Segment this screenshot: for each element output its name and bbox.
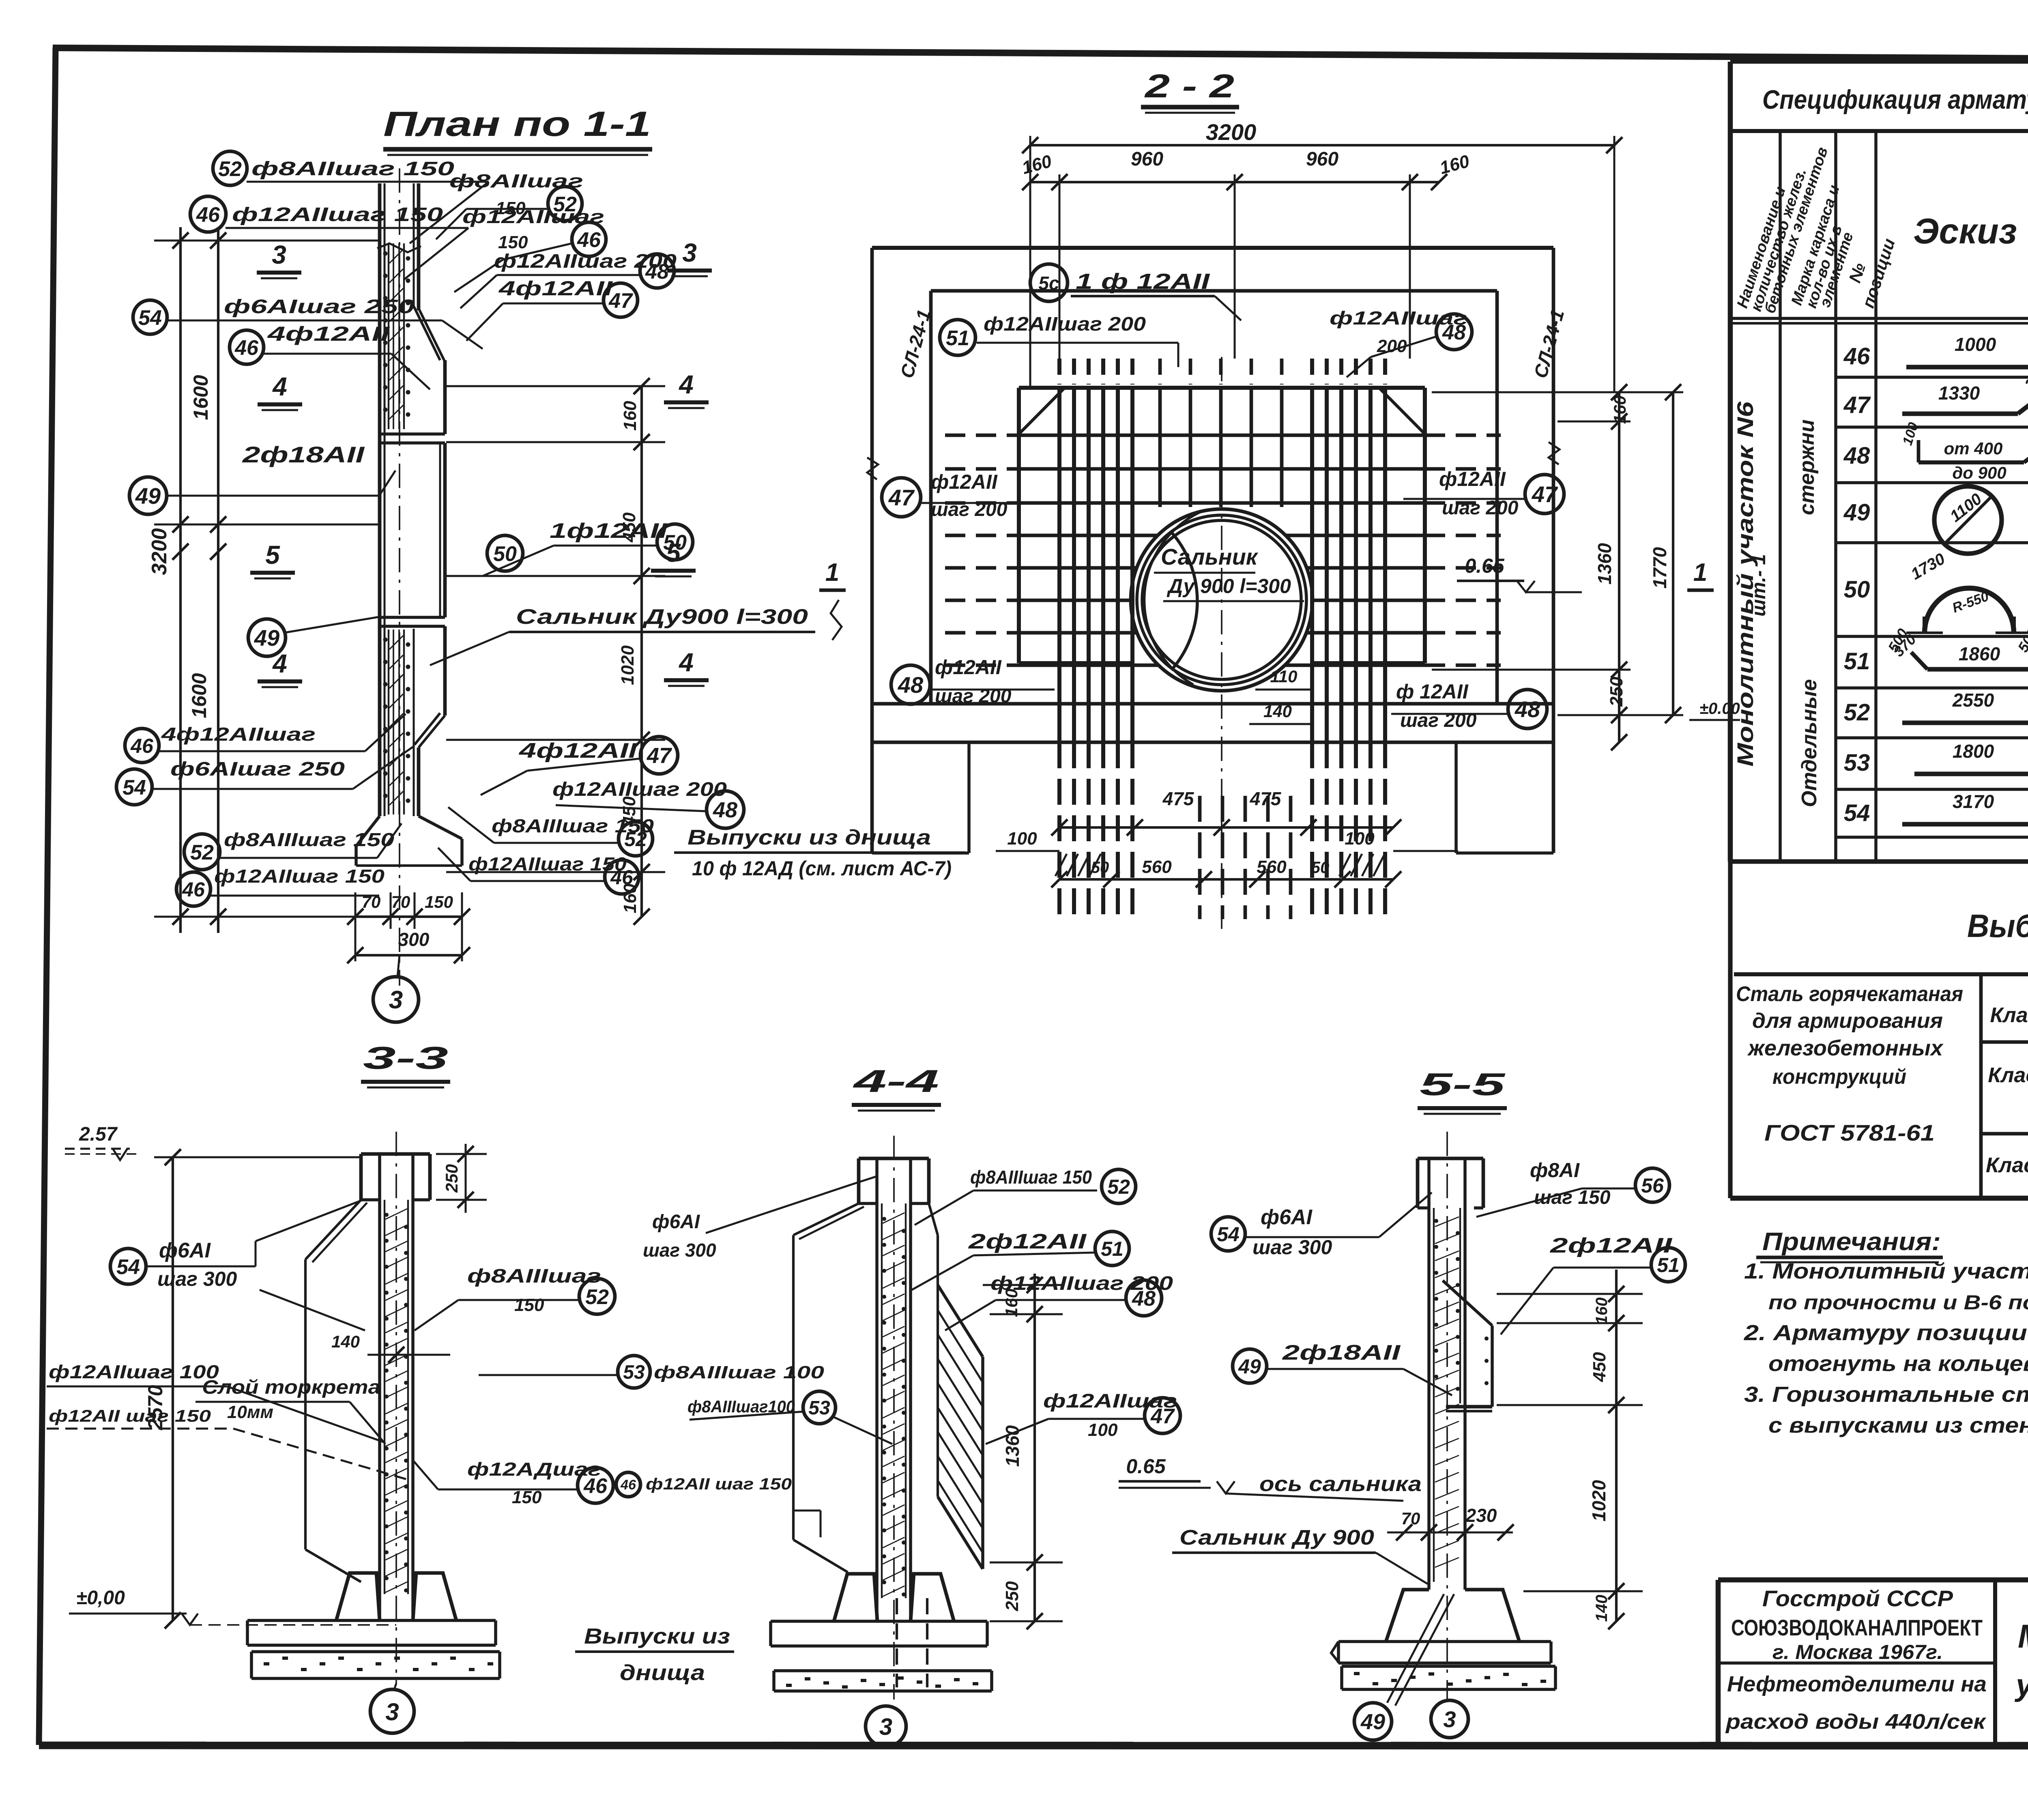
svg-text:3: 3 xyxy=(385,1698,399,1725)
svg-text:4: 4 xyxy=(272,372,287,401)
svg-text:±0,00: ±0,00 xyxy=(76,1587,125,1609)
svg-text:1. Монолитный участок вып: 1. Монолитный участок выполнять из бетон… xyxy=(1744,1259,2028,1283)
svg-text:3200: 3200 xyxy=(148,528,171,575)
svg-text:46: 46 xyxy=(1843,343,1870,370)
svg-text:4ф12АII: 4ф12АII xyxy=(267,322,390,345)
svg-text:46: 46 xyxy=(577,228,601,252)
svg-text:ф8АIIIшаг: ф8АIIIшаг xyxy=(467,1266,601,1287)
svg-text:560: 560 xyxy=(1142,857,1172,877)
svg-text:54: 54 xyxy=(122,776,146,799)
svg-text:70: 70 xyxy=(362,892,381,911)
svg-text:ф12АIIшаг 200: ф12АIIшаг 200 xyxy=(552,779,727,800)
svg-text:2ф18АII: 2ф18АII xyxy=(1282,1341,1401,1364)
svg-text:46: 46 xyxy=(196,203,220,227)
svg-text:3: 3 xyxy=(389,986,403,1014)
svg-text:47: 47 xyxy=(1150,1405,1175,1428)
svg-text:52: 52 xyxy=(218,157,242,181)
svg-text:железобетонных: железобетонных xyxy=(1747,1036,1944,1060)
svg-text:1860: 1860 xyxy=(1959,643,2000,664)
svg-text:ф 12АII: ф 12АII xyxy=(1396,680,1469,703)
svg-text:100: 100 xyxy=(1345,829,1375,849)
svg-text:ф12АIIшаг 150: ф12АIIшаг 150 xyxy=(232,204,443,226)
svg-text:2550: 2550 xyxy=(1952,690,1994,711)
svg-text:ф12АIIшаг: ф12АIIшаг xyxy=(1330,307,1467,329)
svg-text:ф8АIIIшаг 150: ф8АIIIшаг 150 xyxy=(970,1167,1092,1188)
svg-text:Эскиз: Эскиз xyxy=(1913,211,2017,251)
svg-text:46: 46 xyxy=(130,735,154,757)
svg-text:3-3: 3-3 xyxy=(363,1040,448,1076)
svg-text:5с: 5с xyxy=(1038,273,1059,294)
svg-text:110: 110 xyxy=(1270,667,1298,686)
svg-text:конструкций: конструкций xyxy=(1772,1065,1906,1089)
svg-text:Монолитный: Монолитный xyxy=(2018,1618,2028,1655)
svg-text:ф8АIIIшаг 150: ф8АIIIшаг 150 xyxy=(224,829,395,850)
svg-text:1020: 1020 xyxy=(1588,1480,1609,1521)
svg-text:48: 48 xyxy=(1132,1287,1156,1311)
svg-text:г. Москва 1967г.: г. Москва 1967г. xyxy=(1772,1641,1943,1663)
svg-text:4ф12АIIшаг: 4ф12АIIшаг xyxy=(161,724,316,745)
svg-text:КлассАI: КлассАI xyxy=(1990,1003,2028,1027)
svg-text:160: 160 xyxy=(1593,1298,1611,1325)
svg-text:КлассАII: КлассАII xyxy=(1988,1064,2028,1087)
svg-text:160: 160 xyxy=(1020,151,1054,178)
svg-text:4ф12АII: 4ф12АII xyxy=(498,277,613,300)
svg-text:300: 300 xyxy=(398,929,430,950)
svg-text:5-5: 5-5 xyxy=(1420,1066,1506,1102)
svg-text:4ф12АII: 4ф12АII xyxy=(519,739,638,763)
svg-text:52: 52 xyxy=(1844,699,1870,726)
svg-text:52: 52 xyxy=(1107,1175,1130,1198)
svg-text:Нефтеотделители на: Нефтеотделители на xyxy=(1727,1672,1987,1696)
svg-text:51: 51 xyxy=(1657,1254,1680,1276)
svg-text:50: 50 xyxy=(1844,576,1870,603)
svg-text:ф6АI: ф6АI xyxy=(1261,1205,1313,1229)
svg-text:1020: 1020 xyxy=(618,645,638,685)
svg-text:Примечания:: Примечания: xyxy=(1762,1228,1941,1256)
svg-text:51: 51 xyxy=(946,327,969,350)
svg-text:Сальник Ду 900: Сальник Ду 900 xyxy=(1179,1526,1374,1549)
svg-text:2ф18АII: 2ф18АII xyxy=(242,442,365,467)
svg-text:ф12АIIшаг 200: ф12АIIшаг 200 xyxy=(494,251,677,272)
svg-text:ф12АII: ф12АII xyxy=(1439,468,1506,490)
svg-text:ф12АII: ф12АII xyxy=(935,656,1002,679)
svg-text:100: 100 xyxy=(1088,1420,1118,1440)
svg-text:шаг 300: шаг 300 xyxy=(157,1268,237,1290)
svg-text:1800: 1800 xyxy=(1953,741,1994,762)
svg-text:49: 49 xyxy=(1238,1355,1261,1378)
svg-text:от 400: от 400 xyxy=(1944,439,2003,458)
svg-text:140: 140 xyxy=(331,1332,360,1351)
svg-text:50: 50 xyxy=(493,542,517,566)
svg-text:53: 53 xyxy=(808,1397,830,1419)
svg-text:50: 50 xyxy=(1311,859,1330,877)
svg-text:54: 54 xyxy=(1844,800,1870,826)
svg-text:1: 1 xyxy=(825,559,839,587)
svg-text:шаг 300: шаг 300 xyxy=(643,1240,716,1261)
svg-text:Спецификация арматуры на один: Спецификация арматуры на один элемент xyxy=(1762,84,2028,114)
svg-text:450: 450 xyxy=(1590,1352,1609,1382)
svg-text:475: 475 xyxy=(1250,788,1282,809)
svg-text:52: 52 xyxy=(190,841,214,864)
svg-text:51: 51 xyxy=(1844,648,1870,675)
svg-text:160: 160 xyxy=(1437,151,1472,178)
svg-text:54: 54 xyxy=(138,306,162,330)
svg-text:по прочности и В-6 по вод: по прочности и В-6 по водонепроницаемост… xyxy=(1768,1291,2028,1314)
svg-text:1ф12АII: 1ф12АII xyxy=(550,519,668,543)
svg-text:отогнуть на кольцевую армат: отогнуть на кольцевую арматуру поз. 49. xyxy=(1768,1352,2028,1376)
svg-text:1360: 1360 xyxy=(1594,543,1615,584)
svg-text:140: 140 xyxy=(1263,702,1292,721)
svg-text:10мм: 10мм xyxy=(227,1402,273,1422)
svg-text:48: 48 xyxy=(1843,443,1870,469)
svg-text:1 ф 12АII: 1 ф 12АII xyxy=(1076,269,1210,294)
svg-text:ГОСТ 5781-61: ГОСТ 5781-61 xyxy=(1764,1120,1935,1145)
svg-text:46: 46 xyxy=(182,878,205,901)
svg-text:48: 48 xyxy=(898,672,924,698)
svg-text:ф8АIIшаг 150: ф8АIIшаг 150 xyxy=(251,158,454,180)
svg-text:днища: днища xyxy=(620,1661,705,1685)
svg-text:стержни: стержни xyxy=(1795,419,1819,515)
svg-text:49: 49 xyxy=(1843,499,1870,526)
svg-text:Сталь горячекатаная: Сталь горячекатаная xyxy=(1736,982,1963,1006)
svg-text:ф8АIIIшаг 100: ф8АIIIшаг 100 xyxy=(654,1362,825,1382)
svg-text:4: 4 xyxy=(678,370,694,399)
svg-text:ф12АIIшаг 150: ф12АIIшаг 150 xyxy=(468,853,627,875)
svg-text:46: 46 xyxy=(583,1474,608,1498)
svg-text:47: 47 xyxy=(647,743,672,768)
svg-text:160: 160 xyxy=(1610,395,1629,424)
svg-text:2 - 2: 2 - 2 xyxy=(1144,68,1234,105)
svg-text:54: 54 xyxy=(116,1255,140,1279)
svg-text:160: 160 xyxy=(620,401,640,431)
svg-text:1730: 1730 xyxy=(1908,550,1948,583)
svg-text:48: 48 xyxy=(1515,696,1540,722)
svg-text:3. Горизонтальные стержни: 3. Горизонтальные стержни поз. №54 перев… xyxy=(1744,1382,2028,1407)
svg-text:Выпуски из: Выпуски из xyxy=(584,1624,730,1648)
svg-text:ф8АI: ф8АI xyxy=(1530,1159,1580,1182)
svg-text:5: 5 xyxy=(265,540,280,569)
svg-text:2.57: 2.57 xyxy=(79,1124,118,1145)
svg-text:250: 250 xyxy=(1607,677,1626,707)
svg-text:ф8АIIIшаг 150: ф8АIIIшаг 150 xyxy=(492,815,654,836)
svg-text:1770: 1770 xyxy=(1649,547,1670,589)
svg-text:56: 56 xyxy=(1641,1174,1664,1197)
svg-text:3170: 3170 xyxy=(1953,791,1994,812)
svg-text:46: 46 xyxy=(234,336,259,360)
svg-text:53: 53 xyxy=(623,1362,645,1383)
svg-text:расход воды 440л/сек: расход воды 440л/сек xyxy=(1725,1710,1987,1734)
svg-text:53: 53 xyxy=(1844,750,1870,776)
svg-text:СОЮЗВОДОКАНАЛПРОЕКТ: СОЮЗВОДОКАНАЛПРОЕКТ xyxy=(1731,1615,1983,1640)
svg-text:СЛ-24-1: СЛ-24-1 xyxy=(896,307,935,380)
svg-text:ф6АIшаг 250: ф6АIшаг 250 xyxy=(224,296,415,318)
svg-text:шт.- 1: шт.- 1 xyxy=(1748,554,1770,617)
svg-text:0.65: 0.65 xyxy=(1465,554,1505,577)
svg-text:±0.00: ±0.00 xyxy=(1699,700,1740,718)
svg-text:3: 3 xyxy=(1443,1706,1456,1732)
svg-text:3: 3 xyxy=(682,238,697,267)
svg-text:3: 3 xyxy=(879,1714,892,1740)
svg-text:ф12АIIшаг 100: ф12АIIшаг 100 xyxy=(49,1361,219,1382)
svg-text:100: 100 xyxy=(1007,829,1037,849)
svg-text:0.65: 0.65 xyxy=(1126,1455,1166,1478)
svg-text:150: 150 xyxy=(498,232,528,252)
svg-text:54: 54 xyxy=(1217,1223,1240,1246)
svg-text:КлассАIII: КлассАIII xyxy=(1986,1154,2028,1177)
svg-text:ось сальника: ось сальника xyxy=(1259,1472,1422,1496)
svg-text:3: 3 xyxy=(272,240,286,269)
svg-text:49: 49 xyxy=(1360,1710,1385,1734)
svg-text:47: 47 xyxy=(1843,392,1871,418)
svg-text:47: 47 xyxy=(1532,481,1558,507)
svg-text:960: 960 xyxy=(1306,148,1338,170)
svg-text:шаг 300: шаг 300 xyxy=(1252,1236,1332,1259)
svg-text:с выпусками из стеновых па: с выпусками из стеновых панелей. xyxy=(1768,1413,2028,1438)
svg-text:Сальник: Сальник xyxy=(1161,544,1259,569)
svg-text:3200: 3200 xyxy=(1206,119,1257,145)
svg-text:участок стены!: участок стены! xyxy=(2014,1668,2028,1702)
svg-text:Ду 900 l=300: Ду 900 l=300 xyxy=(1167,575,1291,597)
svg-text:10 ф 12АД (см. лист АС-7): 10 ф 12АД (см. лист АС-7) xyxy=(692,857,952,880)
svg-text:План по 1-1: План по 1-1 xyxy=(383,105,651,144)
svg-text:49: 49 xyxy=(135,483,161,509)
svg-text:1600: 1600 xyxy=(189,375,212,420)
svg-text:46: 46 xyxy=(620,1477,636,1493)
svg-text:1: 1 xyxy=(1693,559,1707,587)
svg-text:475: 475 xyxy=(1162,788,1194,809)
svg-text:500: 500 xyxy=(2014,625,2028,655)
svg-text:Выпуски из днища: Выпуски из днища xyxy=(687,826,931,849)
svg-text:150: 150 xyxy=(425,892,453,911)
svg-text:2. Арматуру позиции N53: 2. Арматуру позиции N53 и 54 у сальника … xyxy=(1744,1321,2028,1345)
svg-text:250: 250 xyxy=(1002,1581,1022,1612)
svg-text:для армирования: для армирования xyxy=(1752,1009,1943,1033)
svg-text:ф12АII: ф12АII xyxy=(931,471,998,493)
svg-text:250: 250 xyxy=(442,1164,461,1193)
svg-text:СЛ-24-1: СЛ-24-1 xyxy=(1530,307,1568,380)
svg-text:52: 52 xyxy=(585,1285,609,1309)
svg-text:150: 150 xyxy=(514,1295,544,1315)
svg-text:70: 70 xyxy=(391,892,410,911)
svg-text:ф8АIIшаг: ф8АIIшаг xyxy=(449,170,583,191)
svg-text:47: 47 xyxy=(888,485,915,510)
svg-text:Выборка арматуры: Выборка арматуры xyxy=(1967,908,2028,944)
svg-text:Сальник Ду900 l=300: Сальник Ду900 l=300 xyxy=(516,605,808,629)
svg-text:230: 230 xyxy=(1465,1505,1497,1526)
svg-text:1600: 1600 xyxy=(188,673,211,718)
svg-text:140: 140 xyxy=(1593,1595,1611,1622)
svg-text:Отдельные: Отдельные xyxy=(1798,679,1821,807)
svg-text:1330: 1330 xyxy=(1938,382,1980,404)
svg-text:960: 960 xyxy=(1131,148,1163,170)
svg-text:ф12АII шаг 150: ф12АII шаг 150 xyxy=(49,1406,211,1425)
svg-text:48: 48 xyxy=(713,798,737,822)
svg-text:шаг 200: шаг 200 xyxy=(1442,497,1519,519)
svg-text:1000: 1000 xyxy=(1955,334,1996,355)
svg-text:ф6АI: ф6АI xyxy=(159,1239,211,1262)
svg-text:4-4: 4-4 xyxy=(852,1063,939,1099)
svg-text:ф6АI: ф6АI xyxy=(652,1211,700,1233)
svg-text:ф12АIIшаг 200: ф12АIIшаг 200 xyxy=(984,314,1146,335)
svg-text:Госстрой СССР: Госстрой СССР xyxy=(1762,1586,1953,1611)
svg-text:2ф12АII: 2ф12АII xyxy=(968,1230,1087,1253)
svg-text:ф6АIшаг 250: ф6АIшаг 250 xyxy=(170,759,345,780)
svg-text:ф12АIIшаг 150: ф12АIIшаг 150 xyxy=(214,866,385,887)
svg-text:ф12АII шаг 150: ф12АII шаг 150 xyxy=(646,1475,792,1493)
svg-text:51: 51 xyxy=(1101,1238,1124,1260)
svg-text:до 900: до 900 xyxy=(1952,463,2006,482)
svg-text:560: 560 xyxy=(1257,857,1287,877)
svg-text:4: 4 xyxy=(678,648,694,677)
svg-text:49: 49 xyxy=(254,625,279,651)
svg-text:ф12АIIшаг: ф12АIIшаг xyxy=(462,206,604,227)
